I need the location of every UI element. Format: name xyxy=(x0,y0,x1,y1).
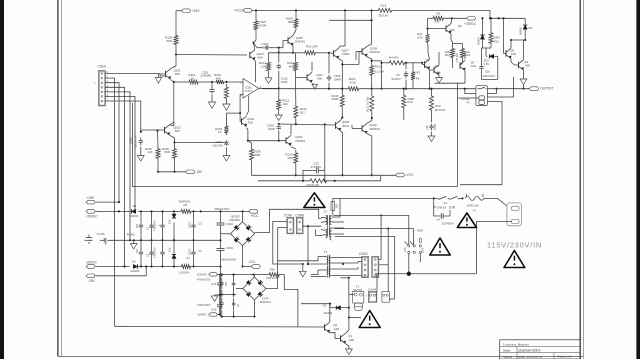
svg-text:104: 104 xyxy=(136,248,139,253)
flag -18V xyxy=(86,274,95,278)
svg-text:+18V: +18V xyxy=(87,196,95,200)
arrow between C15 C16 xyxy=(215,294,220,296)
capacitor C7 4700/25V xyxy=(151,212,153,225)
warning triangle left of SW2 xyxy=(430,238,450,255)
wire row y294.5 xyxy=(221,294,237,296)
svg-text:D6: D6 xyxy=(132,260,136,264)
svg-text:2N501A: 2N501A xyxy=(370,127,381,131)
wire -15V row xyxy=(157,161,159,172)
transistor Q7 A06 xyxy=(459,62,461,68)
op-amp supply pin down xyxy=(248,96,250,112)
svg-text:MA004x4: MA004x4 xyxy=(260,300,272,304)
connector CON1 xyxy=(98,71,105,106)
svg-text:Company Magnat: Company Magnat xyxy=(503,342,529,346)
svg-text:100K: 100K xyxy=(494,35,501,39)
svg-text:R20: R20 xyxy=(270,267,276,271)
svg-text:-15V: -15V xyxy=(195,170,203,174)
svg-text:230V: 230V xyxy=(422,247,424,253)
wire plus-input node to R204 xyxy=(226,112,240,114)
svg-text:51/25V: 51/25V xyxy=(392,77,401,81)
title block frame xyxy=(500,340,581,359)
svg-text:A06: A06 xyxy=(248,121,254,125)
svg-text:2N5401: 2N5401 xyxy=(295,40,306,44)
svg-text:BD307: BD307 xyxy=(232,215,241,219)
svg-text:SW2: SW2 xyxy=(417,229,423,233)
svg-text:-15VDC: -15VDC xyxy=(86,260,98,264)
wire Q207 emitter to R215 xyxy=(339,59,343,61)
power inlet connector xyxy=(507,203,522,226)
svg-text:D2: D2 xyxy=(323,303,327,307)
transistor Q201 xyxy=(175,55,177,67)
capacitor C210 10U/25V xyxy=(225,140,227,142)
resistor R208 68R xyxy=(294,17,298,31)
ground arrow under C210 xyxy=(225,147,227,155)
svg-text:104M: 104M xyxy=(434,124,437,130)
wire R203 to node xyxy=(175,47,177,55)
cap small row3 mid xyxy=(233,278,235,283)
wire long feedback line xyxy=(133,103,458,187)
wire F2 up xyxy=(341,277,349,279)
svg-text:KBU806: KBU806 xyxy=(230,218,241,222)
connector CON3 a xyxy=(362,257,369,278)
fuse F1 250V1.6A xyxy=(465,196,484,200)
capacitor C10 100U/16V xyxy=(482,47,483,49)
svg-text:6R7/1W: 6R7/1W xyxy=(435,108,446,112)
svg-text:-15VDC: -15VDC xyxy=(196,313,206,317)
svg-text:R6: R6 xyxy=(437,12,441,16)
zener ZD1 15V xyxy=(173,211,175,217)
svg-text:10K: 10K xyxy=(261,65,266,69)
diode D9 MA150 xyxy=(482,18,484,35)
wire Q207 col to Q209 base link xyxy=(342,63,359,65)
wire rail step right xyxy=(490,17,525,19)
wire to Q204 base xyxy=(239,113,241,121)
svg-text:-18V: -18V xyxy=(88,279,96,283)
svg-text:250V1.6A: 250V1.6A xyxy=(467,204,479,208)
wire CON1 pin1 to Q201 base xyxy=(105,73,160,75)
resistor R215 330R xyxy=(340,92,344,110)
resistor R209 (under op-amp) xyxy=(224,84,228,102)
svg-text:A06: A06 xyxy=(435,70,441,74)
wire row y316.6 xyxy=(221,316,255,318)
svg-text:330R: 330R xyxy=(332,97,339,101)
flag +15VDC psu xyxy=(86,210,95,214)
svg-text:T2: T2 xyxy=(324,209,328,213)
svg-text:C16: C16 xyxy=(211,307,217,311)
transistor Q205 2N5401 xyxy=(287,37,289,43)
svg-text:1.2K/2W: 1.2K/2W xyxy=(178,271,189,275)
resistor R214 10K xyxy=(267,60,271,73)
resistor R201 1K xyxy=(174,81,187,83)
svg-text:N C25: N C25 xyxy=(97,232,105,236)
ground rail y240 xyxy=(134,239,221,241)
svg-text:220P: 220P xyxy=(268,127,275,131)
resistor R212 220 xyxy=(277,97,281,112)
svg-text:+15VDC: +15VDC xyxy=(464,22,477,26)
svg-text:220: 220 xyxy=(283,102,288,106)
svg-text:A06: A06 xyxy=(317,77,323,81)
svg-text:R14: R14 xyxy=(465,53,471,57)
flag -VCC amp xyxy=(396,173,405,177)
warning triangle below 115V text xyxy=(504,251,525,268)
svg-text:110V: 110V xyxy=(405,247,407,253)
connector CON7 xyxy=(287,218,294,234)
wire -15VDC rail xyxy=(96,266,130,268)
svg-text:22K: 22K xyxy=(148,150,153,154)
wire CON1 pin6 bus down xyxy=(105,96,135,211)
svg-text:CON7: CON7 xyxy=(284,214,293,218)
transistor Q3 A06 xyxy=(424,61,426,67)
svg-text:A06: A06 xyxy=(425,65,431,69)
svg-text:6A/T3A: 6A/T3A xyxy=(353,288,362,292)
svg-text:82R 1/2W: 82R 1/2W xyxy=(266,276,279,280)
wire node C212 xyxy=(278,48,280,53)
op-amp IC201 TL071 xyxy=(243,79,259,99)
svg-text:-VCC: -VCC xyxy=(405,173,414,177)
diode D6 MA004 xyxy=(133,264,137,268)
svg-text:103/400V: 103/400V xyxy=(442,222,454,226)
svg-text:TL071: TL071 xyxy=(245,90,253,93)
flag -15V xyxy=(186,170,195,174)
warning triangle lower right xyxy=(359,311,380,328)
svg-text:+18V: +18V xyxy=(192,9,201,13)
svg-text:C16: C16 xyxy=(426,125,429,130)
arrow under R212 xyxy=(278,112,280,115)
warning triangle near switch xyxy=(457,213,476,228)
op-amp plus input wire xyxy=(240,93,243,95)
svg-text:R6: R6 xyxy=(184,203,188,207)
svg-text:F1: F1 xyxy=(473,208,477,212)
svg-text:Quantum 625 A: Quantum 625 A xyxy=(518,349,541,353)
node under D9/R10 xyxy=(483,47,492,49)
bridge wires xyxy=(242,211,244,221)
output rail wire xyxy=(262,88,346,90)
wires CON8 to T2 xyxy=(303,225,321,227)
resistor R204 1K xyxy=(224,124,228,135)
wire CON1 pin5 bus down xyxy=(105,92,130,240)
relay side loops xyxy=(465,89,476,94)
svg-text:15V: 15V xyxy=(169,219,172,224)
resistor R205 22K xyxy=(156,146,160,161)
transistor Q211 xyxy=(306,74,308,80)
psu left rows xyxy=(221,274,268,276)
resistor R210 68R xyxy=(294,150,298,166)
wire fuse to inlet xyxy=(484,198,508,206)
svg-text:8.2K: 8.2K xyxy=(350,81,356,85)
svg-text:CON4: CON4 xyxy=(368,288,376,292)
wire protection column xyxy=(348,295,350,318)
svg-text:56R: 56R xyxy=(165,150,170,154)
svg-text:C1: C1 xyxy=(198,249,202,253)
capacitor C1 104/C xyxy=(193,240,195,252)
wire node to Q203 base xyxy=(176,54,247,57)
svg-text:CON8: CON8 xyxy=(295,214,304,218)
transistor Q4 A56 xyxy=(518,62,520,68)
svg-text:1K: 1K xyxy=(191,76,195,80)
capacitor C16 104M xyxy=(431,124,433,126)
wires CON7 down to lower section xyxy=(273,222,301,265)
wire rail second level xyxy=(329,19,371,21)
resistor R207 500R xyxy=(254,19,258,33)
svg-text:S1: S1 xyxy=(444,201,448,205)
transistor Q208 B631 xyxy=(335,122,337,128)
svg-text:7A: 7A xyxy=(466,101,470,105)
wire bus to Q2 base xyxy=(115,325,325,328)
svg-text:Q3: Q3 xyxy=(425,58,429,62)
connector CON8 xyxy=(296,218,303,234)
wire bridge AC loop to T2 xyxy=(255,209,322,232)
svg-text:10V: 10V xyxy=(226,282,228,286)
svg-text:104/C: 104/C xyxy=(189,248,192,255)
wire T2 to power switch xyxy=(333,197,434,199)
svg-text:471/50V: 471/50V xyxy=(311,165,322,169)
wire Q203 emitter to op-amp pin8 xyxy=(254,60,257,62)
svg-text:Sheet 2 of 2: Sheet 2 of 2 xyxy=(557,355,572,359)
transistor Q1 A06 xyxy=(340,335,342,341)
svg-text:4700/25V: 4700/25V xyxy=(153,220,156,231)
svg-text:6800uF/63V: 6800uF/63V xyxy=(215,207,230,211)
svg-text:R10: R10 xyxy=(494,39,500,43)
svg-text:D8: D8 xyxy=(529,26,533,30)
svg-text:Date: 2009.10.21: Date: 2009.10.21 xyxy=(518,355,543,359)
arrow under R214 xyxy=(268,73,270,78)
wire feedback row y181 xyxy=(258,180,306,182)
svg-text:2K7: 2K7 xyxy=(300,110,306,114)
capacitor C9 51/25V xyxy=(405,71,407,74)
right black bar xyxy=(636,0,640,359)
capacitor C16 470uF/25V xyxy=(219,295,221,305)
resistor R216 2K7 xyxy=(294,103,298,121)
cap small row3 left xyxy=(221,278,223,283)
svg-text:Size A3: Size A3 xyxy=(503,355,512,359)
svg-text:A06: A06 xyxy=(334,327,340,331)
transistor Q204 xyxy=(241,118,243,124)
transistor Q202 A56 xyxy=(164,127,166,133)
svg-text:R219: R219 xyxy=(375,64,382,68)
wires CON3 up xyxy=(379,259,381,261)
capacitor C3 104/C xyxy=(193,212,195,225)
svg-text:R217 0.1/1W: R217 0.1/1W xyxy=(366,96,370,112)
arrow under C16 xyxy=(431,132,433,136)
svg-text:68R: 68R xyxy=(288,156,293,160)
wire op-amp output to C212/R212 node xyxy=(259,87,279,89)
resistor R202 39K xyxy=(215,80,226,84)
capacitor C206 104M xyxy=(328,75,330,77)
svg-text:470uF/25V: 470uF/25V xyxy=(197,278,211,282)
bridge2 wires xyxy=(253,275,255,277)
wires SW2 network xyxy=(380,214,382,216)
svg-text:104: 104 xyxy=(136,223,139,228)
wire Q209 emitter branch to R4 row xyxy=(372,60,382,62)
capacitor row1 104 xyxy=(140,212,142,225)
svg-text:A56: A56 xyxy=(525,64,531,68)
wire Q201 emitter down xyxy=(171,80,174,83)
svg-text:2N5551: 2N5551 xyxy=(295,139,306,143)
wire R218 row up to -VCC rail xyxy=(380,175,382,181)
wires T1 right to CON3 xyxy=(331,257,362,259)
wires T1 left xyxy=(318,256,327,258)
svg-text:CON1: CON1 xyxy=(98,65,107,69)
transistor Q206 2N5551 xyxy=(285,137,287,143)
flag OUTPUT xyxy=(529,87,539,91)
svg-text:Model:: Model: xyxy=(503,348,511,352)
capacitor row2 c xyxy=(162,240,164,252)
frame right double border xyxy=(579,0,581,359)
svg-text:MA004: MA004 xyxy=(324,311,333,315)
svg-text:PGND: PGND xyxy=(127,232,135,236)
svg-text:360R/1W: 360R/1W xyxy=(179,199,191,203)
wire Q5/Q4 top xyxy=(511,39,525,41)
svg-text:5.1/2W: 5.1/2W xyxy=(375,70,384,74)
zener ZD2 15V xyxy=(172,255,176,259)
resistor R23 6R7/1W xyxy=(430,92,434,114)
svg-text:R9: R9 xyxy=(416,77,420,81)
wire bridge2 left links xyxy=(233,275,235,279)
svg-text:Q8: Q8 xyxy=(435,64,439,68)
svg-text:R13: R13 xyxy=(381,3,387,7)
svg-text:D1?N: D1?N xyxy=(262,297,269,301)
resistor R12 22K xyxy=(451,46,455,60)
svg-text:+VCC: +VCC xyxy=(234,9,244,13)
flag +VCC psu xyxy=(249,210,258,214)
svg-text:360R: 360R xyxy=(254,153,261,157)
svg-text:115V/230V/IN: 115V/230V/IN xyxy=(487,240,542,249)
wire CON1 pin4 bus down xyxy=(105,87,124,266)
wire R20 right xyxy=(282,275,298,327)
resistor R217 0.1/1W xyxy=(370,92,374,115)
svg-text:A06: A06 xyxy=(511,52,517,56)
zener ZD2 5.6V xyxy=(490,54,494,58)
svg-text:R26 10R: R26 10R xyxy=(306,45,317,49)
wire Q210 emitter to -VCC rail xyxy=(367,134,372,136)
svg-text:4K3: 4K3 xyxy=(289,65,295,69)
flag +18V xyxy=(182,9,191,13)
svg-text:102P: 102P xyxy=(281,80,288,84)
svg-text:A06: A06 xyxy=(175,72,181,76)
svg-text:4700/25V: 4700/25V xyxy=(153,247,156,258)
arrow under Q4 emitter xyxy=(523,70,525,79)
wire Q209 emitter to R219 xyxy=(367,57,372,59)
wire -18V to diode row xyxy=(96,275,147,277)
capacitor C4 103/400V xyxy=(434,198,442,216)
wire Q208 base row xyxy=(279,124,336,125)
svg-text:C3: C3 xyxy=(198,222,202,226)
power switch S1 xyxy=(433,197,435,199)
capacitor C212 102P xyxy=(278,64,280,66)
wire rail to right step xyxy=(395,9,491,11)
transistor Q5 A06 xyxy=(505,50,507,56)
wire Q208 emitter to -VCC rail xyxy=(341,131,343,133)
svg-text:2200(M): 2200(M) xyxy=(201,74,212,78)
svg-text:X05: X05 xyxy=(336,203,339,208)
wire +VCC rail top xyxy=(252,9,376,11)
svg-text:MA004: MA004 xyxy=(477,37,480,45)
resistor R19 100R xyxy=(402,92,406,111)
svg-text:100U/16V: 100U/16V xyxy=(483,74,495,78)
bridge rectifier 2 MA004x4 xyxy=(243,277,266,300)
transistor Q207 D600 xyxy=(333,50,335,56)
capacitor C25 xyxy=(100,239,105,241)
svg-text:104M: 104M xyxy=(334,78,342,82)
svg-text:+VCC: +VCC xyxy=(250,214,259,218)
wire Q201-Q202 link xyxy=(173,82,175,126)
svg-text:MA004: MA004 xyxy=(131,269,140,273)
wire CON1 pin2 bus down xyxy=(105,78,114,326)
svg-text:56K: 56K xyxy=(167,39,172,43)
svg-text:C303: C303 xyxy=(226,246,233,250)
cap small row4 left xyxy=(221,298,223,303)
svg-text:104/C: 104/C xyxy=(189,221,192,228)
transistor Q203 xyxy=(249,52,251,58)
svg-text:+15VDC: +15VDC xyxy=(86,215,99,219)
svg-text:OUTPUT: OUTPUT xyxy=(540,87,553,91)
wires aux connector xyxy=(389,298,394,300)
resistor R9 2K2 xyxy=(411,70,415,82)
ground arrow under R209 xyxy=(225,102,227,105)
svg-text:6800uF/63V: 6800uF/63V xyxy=(221,257,236,261)
frame bottom line xyxy=(58,355,583,357)
svg-text:C10: C10 xyxy=(485,70,491,74)
svg-text:-VCC: -VCC xyxy=(248,260,256,264)
transistor Q8 A06 xyxy=(433,67,435,73)
resistor R218 22K xyxy=(306,179,330,183)
wire CON1 pin3 bus down xyxy=(105,83,119,202)
arrow under T1 left xyxy=(302,264,304,271)
svg-text:A06: A06 xyxy=(349,338,355,342)
wire Q202 base node xyxy=(140,131,142,133)
svg-text:A56: A56 xyxy=(175,129,181,133)
arrow on Q201 input xyxy=(158,74,160,78)
svg-text:500R: 500R xyxy=(260,24,267,28)
flag +15VDC top xyxy=(467,17,476,21)
svg-text:2N501A: 2N501A xyxy=(370,50,381,54)
svg-text:NU/50V NP: NU/50V NP xyxy=(135,135,138,148)
svg-text:A06: A06 xyxy=(471,64,477,68)
resistor R219 5.1/2W xyxy=(370,63,374,78)
wire CON1 pin7 bus down xyxy=(105,101,141,132)
svg-text:MA004: MA004 xyxy=(520,27,523,35)
arrow ground under Q1 xyxy=(346,344,349,349)
connector CON4 xyxy=(368,292,376,303)
svg-text:C4: C4 xyxy=(436,217,440,221)
capacitor row2 104 xyxy=(140,240,142,252)
svg-text:A56: A56 xyxy=(449,28,455,32)
filter cap C303 6800uF/63V xyxy=(220,240,222,248)
svg-text:D5: D5 xyxy=(133,204,137,208)
svg-text:C204: C204 xyxy=(129,137,133,144)
svg-text:470uF/25V: 470uF/25V xyxy=(197,303,211,307)
resistor R213 4K3 xyxy=(294,60,298,73)
svg-text:10U/25V: 10U/25V xyxy=(212,144,223,148)
diode D8 MA150 xyxy=(524,18,526,24)
diode D5 MA004 xyxy=(132,209,136,213)
capacitor C203 220P link xyxy=(254,43,258,48)
left black bar xyxy=(0,0,4,359)
capacitor C8 4700/25V xyxy=(151,240,153,252)
svg-text:F1: F1 xyxy=(356,284,360,288)
diode D2 MA004 xyxy=(301,303,330,305)
wire +15VDC rail xyxy=(96,210,132,212)
resistor R203 56K xyxy=(174,33,178,47)
svg-text:B631: B631 xyxy=(343,124,350,128)
svg-text:68R: 68R xyxy=(288,20,293,24)
transistor Q210 2N501A xyxy=(361,125,363,131)
arrow under Q8 xyxy=(438,75,440,77)
svg-text:+15VDC: +15VDC xyxy=(196,272,207,276)
connector CON3 b xyxy=(372,257,379,278)
capacitor row1 c xyxy=(162,212,164,225)
transistor Q2 A06 xyxy=(324,324,326,330)
